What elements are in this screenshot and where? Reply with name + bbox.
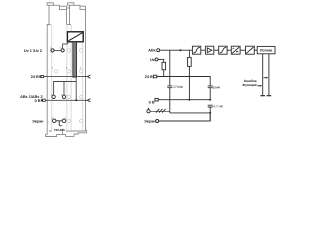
clamp cavity circles (faint) [55,49,83,123]
24V rail with corner to C2 [157,77,211,86]
0V connector box symbol [155,98,158,101]
LED line 2 [268,54,270,96]
chassis ground symbol [150,109,169,113]
left labels [20,46,82,131]
svg-text:Uv 1 /Uv 2: Uv 1 /Uv 2 [24,49,42,53]
24V power jumper line [44,76,86,78]
0V rail [158,99,210,101]
24V connector box symbol [153,75,156,78]
svg-text:270пФ: 270пФ [173,85,183,89]
junction C2/C3/0V [209,99,211,101]
block U5 isolation [246,46,255,54]
svg-text:АВх: АВх [148,49,156,53]
terminal 3 (shield) [52,119,56,123]
0V connector box symbol [41,99,43,101]
logic box [257,46,275,53]
capacitor C2 10nF [208,86,213,88]
svg-text:24 В: 24 В [31,75,39,79]
internal mold lines [52,25,83,132]
wire C1 to shield node [169,88,171,113]
terminal 6 (AI2) [62,95,65,98]
shield node line [170,112,210,114]
block U4 A/D converter [231,46,240,54]
LED bar 2 [267,95,272,97]
wire: shield link with rail tap [56,121,62,126]
shield wire to C3 bottom [159,113,211,121]
internal bus bar [73,42,77,77]
junction: bar wire to 0V [75,99,77,101]
wire R2 to 0V rail [188,66,190,99]
wire: bar bottom down to 0V line [75,77,77,100]
terminal 2 (AI1) [52,95,55,98]
top contact tab 1 [47,3,69,25]
block U3 filter [219,46,227,54]
0V power jumper line [45,99,85,101]
wire [214,49,219,51]
svg-text:4,7 нФ: 4,7 нФ [213,105,223,109]
contact numbers [50,46,82,119]
module bottom rail recess [46,130,87,136]
svg-text:Экран: Экран [32,119,44,123]
terminal 1 (Uv1) [51,49,54,52]
wire: bar to input clamps [54,82,77,96]
capacitor C3 4.7nF [208,105,213,107]
wire Uv to R1 [158,59,164,62]
top contact tab 2 [68,3,86,25]
arrow function [257,85,260,87]
LED line 1 [262,54,264,96]
terminal 7 (shield) [62,119,66,123]
24V jumper contact arrow [86,75,91,78]
wire [227,49,231,51]
svg-text:0 В: 0 В [149,101,155,105]
svg-text:0 В: 0 В [35,99,41,103]
LED bar 1 [260,95,265,97]
svg-text:Функция: Функция [242,83,256,87]
0V jumper contact arrow [86,99,91,102]
terminal Uv [155,58,158,61]
wire [240,49,245,51]
svg-text:Логика: Логика [260,49,273,53]
svg-text:10нФ: 10нФ [212,86,220,90]
wire: between Uv terminals and up to electronics [54,42,68,51]
capacitor C1 270pF [167,86,172,88]
terminal shield [156,120,159,123]
wire R1 to 24V rail [163,70,165,77]
wire [254,49,257,51]
wire AVx to filter chain [160,49,193,51]
wire [201,49,206,51]
24V connector box symbol [39,76,41,78]
isolation box with diagonal [67,32,83,42]
wire AVx line to C1 [169,50,171,85]
block U2 amplifier [205,46,213,54]
wire AVx line to R2 [188,50,190,57]
resistor R2 (shunt) [188,57,192,66]
block U1 input filter [192,46,200,54]
module body outline [47,10,85,131]
node on AVx line [179,49,181,51]
svg-text:24 В: 24 В [145,75,153,79]
junction R2/0V [188,99,190,101]
terminal 5 (Uv2) [61,49,64,52]
terminal AVx [157,49,160,52]
resistor R1 [162,62,166,70]
svg-text:750-485: 750-485 [54,128,65,132]
earth electrode symbol [147,108,150,113]
right labels [144,49,273,124]
svg-text:Экран: Экран [144,120,156,124]
junction C3/shield [209,112,211,114]
arrow error [264,77,267,79]
